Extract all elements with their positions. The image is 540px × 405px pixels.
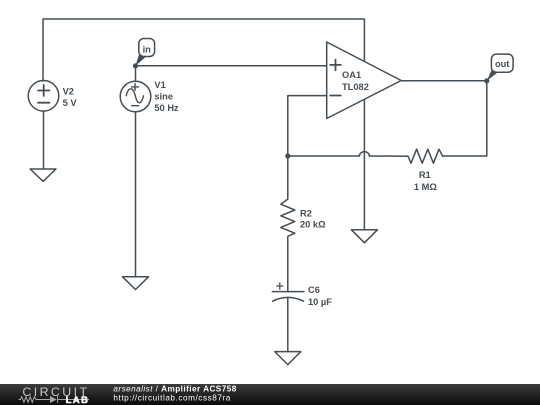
svg-text:TL082: TL082 — [342, 82, 369, 92]
svg-text:OA1: OA1 — [342, 70, 361, 80]
svg-text:sine: sine — [154, 92, 173, 102]
svg-text:arsenalist / Amplifier ACS758: arsenalist / Amplifier ACS758 — [113, 385, 236, 394]
svg-text:C6: C6 — [308, 285, 320, 295]
svg-text:1 MΩ: 1 MΩ — [414, 182, 437, 192]
svg-text:http://circuitlab.com/css87ra: http://circuitlab.com/css87ra — [113, 394, 230, 403]
svg-text:V1: V1 — [154, 80, 165, 90]
svg-text:5 V: 5 V — [63, 98, 78, 108]
svg-text:R1: R1 — [419, 170, 431, 180]
svg-text:LAB: LAB — [66, 395, 90, 405]
svg-text:in: in — [143, 44, 152, 54]
svg-text:50 Hz: 50 Hz — [154, 103, 179, 113]
svg-text:V2: V2 — [63, 87, 74, 97]
svg-text:R2: R2 — [300, 209, 312, 219]
svg-text:20 kΩ: 20 kΩ — [300, 220, 326, 230]
svg-text:out: out — [495, 59, 509, 69]
svg-text:10 µF: 10 µF — [308, 297, 332, 307]
